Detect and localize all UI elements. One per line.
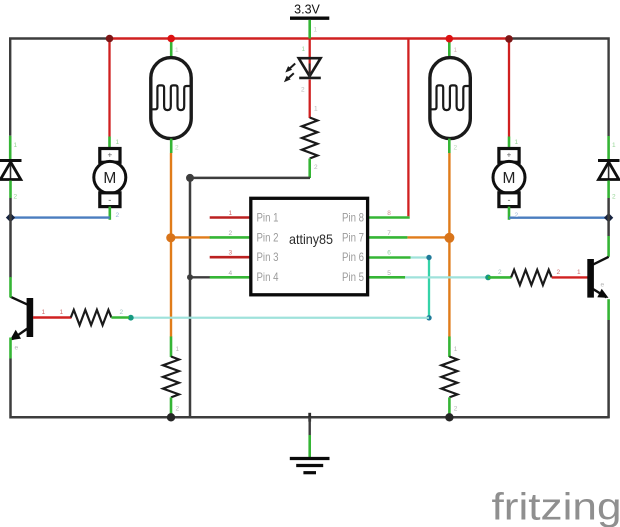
wire green Pin7 leg <box>368 236 407 239</box>
svg-text:+: + <box>107 151 112 160</box>
wire green Q1 emitter lead <box>9 338 12 359</box>
svg-text:Pin 5: Pin 5 <box>342 270 364 284</box>
wire green R3 top lead <box>448 337 451 358</box>
svg-text:fritzing: fritzing <box>492 487 620 527</box>
svg-text:1: 1 <box>60 309 64 316</box>
motor M2 bottom terminal box <box>499 193 519 207</box>
wire green diode D2 top lead <box>607 136 610 159</box>
diode D1 cathode bar <box>0 159 22 162</box>
wire aqua long to R4 <box>131 317 429 319</box>
junction R3 ground dot <box>445 413 453 421</box>
svg-text:5: 5 <box>387 270 391 277</box>
wire orange LDR1 to R2 <box>170 153 172 337</box>
resistor R4 zigzag <box>71 310 112 325</box>
motor M2 minus mark <box>508 195 511 205</box>
IC U1 label Pin 5 <box>342 270 364 284</box>
wire red Pin8 riser <box>407 39 409 217</box>
svg-text:Pin 1: Pin 1 <box>257 211 279 225</box>
svg-text:e: e <box>601 282 605 289</box>
ground bar 3 <box>303 471 316 474</box>
pin number labels tiny <box>14 27 617 413</box>
wire green R4 to aqua <box>111 316 129 319</box>
svg-text:6: 6 <box>387 250 391 257</box>
wire gray right rail bottom <box>607 320 610 418</box>
photoresistor LDR1 body <box>151 58 191 139</box>
wire green R2 top lead <box>170 337 173 358</box>
wire top rail gray left segment <box>10 39 109 136</box>
svg-text:-: - <box>508 195 511 205</box>
motor M1 plus mark <box>107 151 112 160</box>
junction blue dot right <box>604 213 613 222</box>
wire aqua Pin6 to bend <box>411 256 430 258</box>
LED LED1 emission arrow 2 <box>284 73 294 82</box>
svg-text:1: 1 <box>314 106 318 113</box>
junction teal dot bottom <box>426 315 431 320</box>
wire green diode D1 bottom lead <box>9 181 12 199</box>
wire green Q2 collector lead <box>607 236 610 257</box>
junction ground tick <box>308 413 311 422</box>
wire green R1 bottom <box>308 159 311 179</box>
motor M1 letter <box>103 170 116 187</box>
wire green Pin2 leg <box>210 236 252 239</box>
wire orange LDR2 to R3 <box>448 153 450 337</box>
wire green diode D1 top lead <box>9 136 12 159</box>
diode D2 triangle <box>599 162 619 180</box>
svg-text:M: M <box>503 170 516 187</box>
wire green stub LDR2 bottom <box>448 139 451 153</box>
junction dot red LDR1 <box>167 35 175 43</box>
wire blue motor M2 to right rail <box>509 216 609 218</box>
svg-text:3: 3 <box>228 250 232 257</box>
IC U1 label Pin 3 <box>257 250 279 264</box>
svg-text:3.3V: 3.3V <box>294 3 320 17</box>
motor M1 bottom terminal box <box>100 193 120 207</box>
wire orange branch to Pin7 <box>407 236 449 238</box>
svg-text:Pin 3: Pin 3 <box>257 250 279 264</box>
wire red LED anode <box>309 39 311 79</box>
svg-text:2: 2 <box>498 269 502 276</box>
transistor Q1 base bar <box>27 298 34 337</box>
svg-text:2: 2 <box>314 164 318 171</box>
svg-text:Pin 8: Pin 8 <box>342 211 364 225</box>
IC U1 label Pin 8 <box>342 211 364 225</box>
motor M2 letter <box>503 170 516 187</box>
svg-text:2: 2 <box>612 194 616 201</box>
wire gray ground stub <box>309 417 311 435</box>
svg-text:2: 2 <box>176 406 180 413</box>
IC U1 label Pin 4 <box>257 270 279 284</box>
wire top rail gray right segment <box>509 39 609 137</box>
svg-text:1: 1 <box>612 142 616 149</box>
svg-text:2: 2 <box>116 212 120 219</box>
wire green Q1 collector lead <box>9 277 12 298</box>
diode D1 triangle <box>0 162 20 180</box>
transistor Q1 collector line <box>11 297 28 305</box>
svg-text:2: 2 <box>557 269 561 276</box>
wire gray from R1 bottom to node A <box>190 177 310 180</box>
svg-text:1: 1 <box>42 309 46 316</box>
wire red Pin1 stub <box>210 216 252 219</box>
wire gray left rail mid <box>9 198 12 278</box>
wire green stub LDR1 bottom <box>170 139 173 153</box>
svg-text:1: 1 <box>175 47 179 54</box>
IC U1 label Pin 7 <box>342 230 364 244</box>
motor M1 top terminal box <box>100 149 120 163</box>
wire blue motor M1 to left rail <box>11 216 110 218</box>
svg-text:+: + <box>507 151 512 160</box>
wire red R5 to Q2 base <box>552 276 588 278</box>
svg-text:8: 8 <box>387 210 391 217</box>
wire red Q1 base to R4 <box>33 316 72 318</box>
svg-text:7: 7 <box>387 230 391 237</box>
svg-text:2: 2 <box>454 406 458 413</box>
wire green stub 3.3V to rail <box>308 20 311 39</box>
svg-text:Pin 2: Pin 2 <box>257 230 279 244</box>
junction dot maroon left <box>106 35 114 43</box>
LED LED1 lead <box>309 64 311 78</box>
transistor Q2 collector line <box>593 257 609 265</box>
wire green Pin8 leg <box>368 216 410 219</box>
transistor Q1 emitter arrow <box>10 330 21 341</box>
wire green Pin6 leg <box>368 256 411 259</box>
svg-text:4: 4 <box>228 270 232 277</box>
wire green R3 bottom lead <box>448 397 451 415</box>
IC U1 attiny85 body <box>251 198 368 294</box>
junction node A dot <box>186 174 194 182</box>
wire red LED cathode to resistor R1 <box>309 80 311 119</box>
svg-text:1: 1 <box>454 346 458 353</box>
svg-text:1: 1 <box>176 346 180 353</box>
wire top rail red 3.3V net <box>109 37 509 39</box>
resistor R5 zigzag <box>511 270 552 285</box>
LED LED1 triangle <box>299 58 321 76</box>
wire aqua Pin5 to R5 <box>405 276 488 278</box>
junction teal dot top <box>426 255 431 260</box>
svg-text:attiny85: attiny85 <box>289 231 333 247</box>
wire gray right rail mid <box>607 198 610 236</box>
wire green stub LDR2 top <box>448 39 451 60</box>
wire gray vertical node A down to ground rail <box>189 178 192 417</box>
svg-text:Pin 7: Pin 7 <box>342 230 364 244</box>
svg-text:2: 2 <box>120 309 124 316</box>
svg-text:2: 2 <box>175 145 179 152</box>
svg-text:2: 2 <box>454 145 458 152</box>
IC U1 label Pin 6 <box>342 250 364 264</box>
wire teal vertical drop <box>428 258 430 318</box>
svg-text:M: M <box>103 170 116 187</box>
fritzing watermark <box>492 487 620 527</box>
wire green stub motor M1 top <box>108 137 111 149</box>
wire orange branch to Pin2 <box>171 236 211 238</box>
junction dot maroon right <box>505 35 513 43</box>
wire green diode D2 bottom lead <box>607 181 610 199</box>
transistor Q1 emitter line <box>12 329 28 340</box>
wire green Pin4 leg <box>210 276 252 279</box>
wire red Pin3 stub <box>210 256 252 259</box>
IC U1 label Pin 2 <box>257 230 279 244</box>
svg-text:-: - <box>108 195 111 205</box>
LED LED1 emission arrow 1 <box>285 64 295 73</box>
wire green Pin5 leg <box>368 276 405 279</box>
motor M2 plus mark <box>507 151 512 160</box>
svg-text:1: 1 <box>116 139 120 146</box>
resistor R2 zigzag <box>163 357 179 398</box>
ground bar 1 <box>290 457 330 460</box>
wire green R5 left lead <box>488 276 511 279</box>
svg-text:1: 1 <box>314 27 318 34</box>
photoresistor LDR2 body <box>430 58 470 139</box>
power +3.3V label <box>294 3 320 17</box>
svg-text:1: 1 <box>14 142 18 149</box>
resistor R1 zigzag <box>302 118 318 159</box>
IC U1 name attiny85 <box>289 231 333 247</box>
wire green stub motor M2 bottom <box>508 207 511 220</box>
svg-text:1: 1 <box>228 210 232 217</box>
wire green stub motor M1 bottom <box>109 207 112 220</box>
diode D2 lead <box>608 161 610 181</box>
svg-text:e: e <box>15 345 19 352</box>
motor M2 circle <box>493 161 525 193</box>
power +3.3V bar <box>290 17 329 20</box>
junction teal dot left <box>128 315 134 321</box>
motor M1 minus mark <box>108 195 111 205</box>
svg-text:2: 2 <box>515 212 519 219</box>
svg-text:2: 2 <box>14 194 18 201</box>
svg-text:1: 1 <box>577 269 581 276</box>
svg-text:2: 2 <box>228 230 232 237</box>
motor M1 circle <box>94 161 126 193</box>
junction orange dot right <box>444 233 454 243</box>
wire gray Pin4 stub <box>190 276 211 278</box>
junction R2 ground dot <box>167 413 175 421</box>
transistor Q2 emitter arrow <box>597 289 608 298</box>
wire green stub motor M2 top <box>508 137 511 149</box>
wire green R2 bottom lead <box>170 397 173 415</box>
svg-text:1: 1 <box>302 46 306 53</box>
svg-text:1: 1 <box>454 47 458 54</box>
junction Pin4 dot <box>187 274 193 280</box>
ground bar 2 <box>296 464 323 467</box>
wire green ground lead <box>308 435 311 457</box>
junction dot red LDR2 <box>446 35 454 43</box>
junction teal dot R5 <box>485 275 491 281</box>
photoresistor LDR2 meander <box>430 85 469 110</box>
wire green Q2 emitter lead <box>607 299 610 320</box>
wire red drop to motor M1 <box>108 39 110 137</box>
motor M2 top terminal box <box>499 149 519 163</box>
svg-text:1: 1 <box>515 139 519 146</box>
junction blue dot left <box>6 213 15 222</box>
diode D2 cathode bar <box>598 159 620 162</box>
resistor R3 zigzag <box>441 357 457 398</box>
wire red drop to motor M2 <box>508 39 510 137</box>
transistor Q2 base bar <box>587 259 594 298</box>
svg-text:2: 2 <box>301 87 305 94</box>
svg-text:Pin 4: Pin 4 <box>257 270 279 284</box>
svg-text:Pin 6: Pin 6 <box>342 250 364 264</box>
wire gray left rail bottom <box>11 359 609 418</box>
diode D1 lead <box>10 161 12 181</box>
LED LED1 cathode bar <box>299 77 321 80</box>
transistor Q2 emitter line <box>593 289 607 297</box>
junction orange dot <box>166 233 175 242</box>
wire green stub LDR1 top <box>170 39 173 60</box>
IC U1 label Pin 1 <box>257 211 279 225</box>
photoresistor LDR1 meander <box>151 85 190 110</box>
